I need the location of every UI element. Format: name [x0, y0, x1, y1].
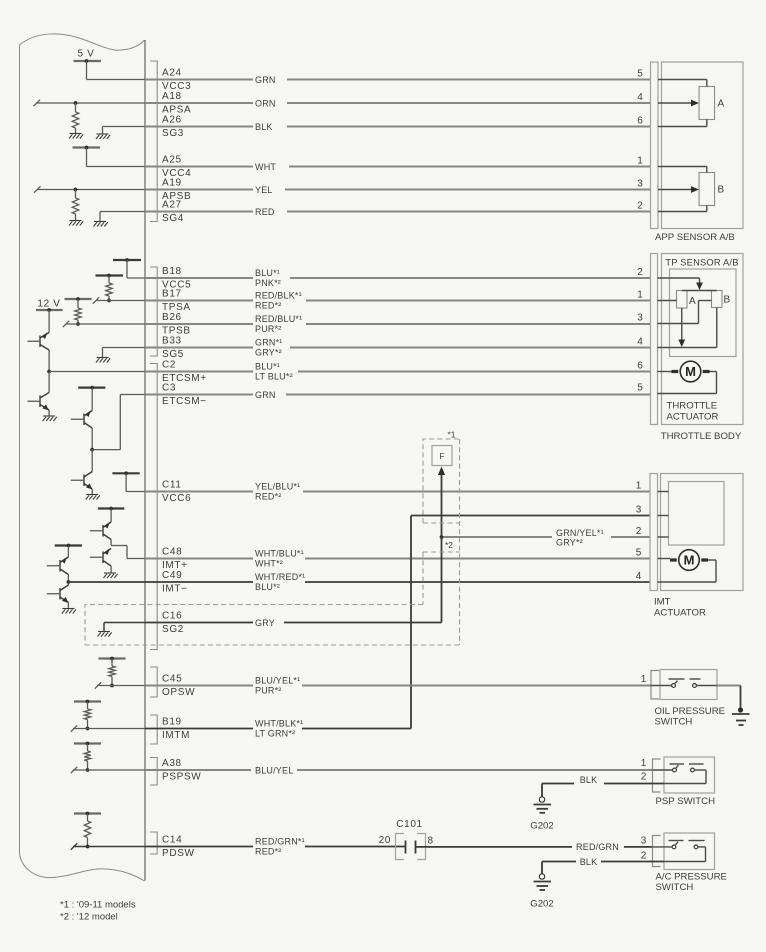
svg-text:M: M	[685, 364, 696, 379]
svg-text:PUR*²: PUR*²	[255, 324, 282, 334]
svg-text:5: 5	[636, 547, 642, 558]
svg-text:*2 : '12 model: *2 : '12 model	[60, 912, 118, 923]
svg-text:6: 6	[637, 115, 643, 126]
svg-text:SG3: SG3	[162, 128, 184, 139]
svg-text:C11: C11	[162, 480, 182, 491]
svg-text:BLU/YEL: BLU/YEL	[255, 765, 293, 775]
svg-text:A: A	[689, 296, 696, 307]
svg-text:5 V: 5 V	[78, 49, 95, 60]
svg-text:2: 2	[637, 200, 643, 211]
svg-text:ETCSM−: ETCSM−	[162, 396, 207, 407]
svg-text:C16: C16	[162, 611, 182, 622]
svg-text:YEL/BLU*¹: YEL/BLU*¹	[255, 482, 300, 492]
svg-text:IMT−: IMT−	[162, 584, 188, 595]
svg-text:OPSW: OPSW	[162, 687, 195, 698]
svg-text:PNK*²: PNK*²	[255, 278, 281, 288]
svg-text:GRY: GRY	[255, 618, 275, 628]
svg-text:GRY*²: GRY*²	[556, 538, 583, 548]
svg-text:2: 2	[641, 851, 647, 862]
svg-text:3: 3	[641, 836, 647, 847]
svg-text:OIL PRESSURE: OIL PRESSURE	[655, 706, 726, 717]
svg-text:C101: C101	[396, 819, 423, 830]
svg-text:C49: C49	[162, 570, 182, 581]
svg-text:SG5: SG5	[162, 349, 184, 360]
svg-text:2: 2	[637, 267, 643, 278]
svg-text:B: B	[718, 185, 725, 196]
svg-text:PSPSW: PSPSW	[162, 772, 201, 783]
svg-text:8: 8	[428, 836, 434, 847]
svg-text:PDSW: PDSW	[162, 848, 195, 859]
svg-text:GRN: GRN	[255, 75, 276, 85]
svg-text:A/C PRESSURE: A/C PRESSURE	[656, 872, 727, 883]
svg-text:SG4: SG4	[162, 213, 184, 224]
svg-text:BLU/YEL*¹: BLU/YEL*¹	[255, 676, 300, 686]
svg-text:G202: G202	[530, 899, 553, 910]
svg-text:B17: B17	[162, 289, 182, 300]
svg-text:RED: RED	[255, 207, 275, 217]
svg-text:RED/GRN*¹: RED/GRN*¹	[255, 837, 305, 847]
svg-text:A38: A38	[162, 758, 182, 769]
svg-text:1: 1	[637, 289, 643, 300]
svg-text:RED*²: RED*²	[255, 491, 282, 501]
svg-text:M: M	[684, 553, 695, 568]
svg-text:GRN: GRN	[255, 390, 276, 400]
svg-text:A25: A25	[162, 155, 182, 166]
svg-text:THROTTLE: THROTTLE	[667, 401, 718, 412]
svg-text:B19: B19	[162, 717, 182, 728]
svg-text:LT BLU*²: LT BLU*²	[255, 371, 293, 381]
svg-text:WHT/BLU*¹: WHT/BLU*¹	[255, 549, 304, 559]
svg-text:SG2: SG2	[162, 624, 184, 635]
svg-text:TP SENSOR A/B: TP SENSOR A/B	[665, 258, 738, 268]
svg-text:IMTM: IMTM	[162, 730, 190, 741]
svg-text:BLK: BLK	[255, 122, 273, 132]
svg-text:*1 : '09-11 models: *1 : '09-11 models	[60, 900, 136, 911]
svg-text:YEL: YEL	[255, 185, 273, 195]
svg-text:RED/BLK*¹: RED/BLK*¹	[255, 291, 302, 301]
svg-text:A18: A18	[162, 91, 182, 102]
svg-text:F: F	[439, 451, 444, 461]
svg-text:1: 1	[641, 758, 647, 769]
svg-text:20: 20	[379, 835, 391, 846]
svg-text:PSP SWITCH: PSP SWITCH	[656, 796, 716, 807]
svg-text:B26: B26	[162, 312, 182, 323]
svg-text:4: 4	[636, 571, 642, 582]
svg-text:C45: C45	[162, 674, 182, 685]
svg-text:C48: C48	[162, 547, 182, 558]
svg-text:B: B	[724, 295, 731, 306]
svg-text:WHT*²: WHT*²	[255, 558, 283, 568]
svg-text:IMT: IMT	[654, 597, 671, 608]
svg-text:12 V: 12 V	[37, 298, 60, 309]
svg-text:RED/GRN: RED/GRN	[576, 842, 619, 852]
svg-text:*1: *1	[448, 430, 456, 440]
svg-text:2: 2	[636, 526, 642, 537]
svg-text:A24: A24	[162, 68, 182, 79]
svg-text:RED/BLU*¹: RED/BLU*¹	[255, 314, 302, 324]
svg-text:GRN/YEL*¹: GRN/YEL*¹	[556, 528, 604, 538]
svg-text:5: 5	[637, 68, 643, 79]
svg-text:BLU*¹: BLU*¹	[255, 268, 280, 278]
svg-text:ORN: ORN	[255, 98, 276, 108]
svg-text:3: 3	[636, 504, 642, 515]
svg-text:2: 2	[641, 772, 647, 783]
svg-text:C14: C14	[162, 835, 182, 846]
svg-text:A: A	[718, 99, 725, 110]
svg-text:BLU*²: BLU*²	[255, 582, 280, 592]
svg-text:C3: C3	[162, 383, 176, 394]
svg-text:B18: B18	[162, 266, 182, 277]
svg-text:THROTTLE BODY: THROTTLE BODY	[661, 431, 742, 442]
svg-text:LT GRN*²: LT GRN*²	[255, 728, 295, 738]
svg-text:WHT: WHT	[255, 162, 276, 172]
svg-text:C2: C2	[162, 360, 176, 371]
svg-text:A26: A26	[162, 115, 182, 126]
svg-text:SWITCH: SWITCH	[656, 882, 694, 893]
svg-text:A27: A27	[162, 200, 182, 211]
svg-text:BLK: BLK	[580, 857, 598, 867]
svg-text:BLU*¹: BLU*¹	[255, 362, 280, 372]
svg-text:WHT/RED*¹: WHT/RED*¹	[255, 572, 305, 582]
svg-text:4: 4	[637, 336, 643, 347]
svg-text:1: 1	[636, 480, 642, 491]
svg-text:PUR*²: PUR*²	[255, 685, 282, 695]
svg-text:RED*²: RED*²	[255, 846, 282, 856]
svg-text:G202: G202	[530, 821, 553, 832]
svg-text:3: 3	[637, 312, 643, 323]
svg-text:A19: A19	[162, 178, 182, 189]
svg-text:ACTUATOR: ACTUATOR	[654, 608, 706, 619]
svg-text:SWITCH: SWITCH	[655, 717, 693, 728]
svg-text:1: 1	[637, 155, 643, 166]
svg-text:BLK: BLK	[580, 775, 598, 785]
svg-text:1: 1	[641, 674, 647, 685]
svg-text:ACTUATOR: ACTUATOR	[667, 412, 719, 423]
svg-text:GRN*¹: GRN*¹	[255, 338, 283, 348]
svg-text:B33: B33	[162, 336, 182, 347]
svg-text:5: 5	[637, 382, 643, 393]
svg-text:WHT/BLK*¹: WHT/BLK*¹	[255, 719, 303, 729]
svg-text:3: 3	[637, 178, 643, 189]
svg-text:GRY*²: GRY*²	[255, 347, 282, 357]
svg-text:RED*²: RED*²	[255, 300, 282, 310]
svg-text:4: 4	[637, 92, 643, 103]
svg-text:VCC6: VCC6	[162, 493, 191, 504]
svg-text:*2: *2	[445, 540, 453, 550]
svg-text:APP SENSOR A/B: APP SENSOR A/B	[655, 232, 735, 243]
svg-text:6: 6	[637, 360, 643, 371]
